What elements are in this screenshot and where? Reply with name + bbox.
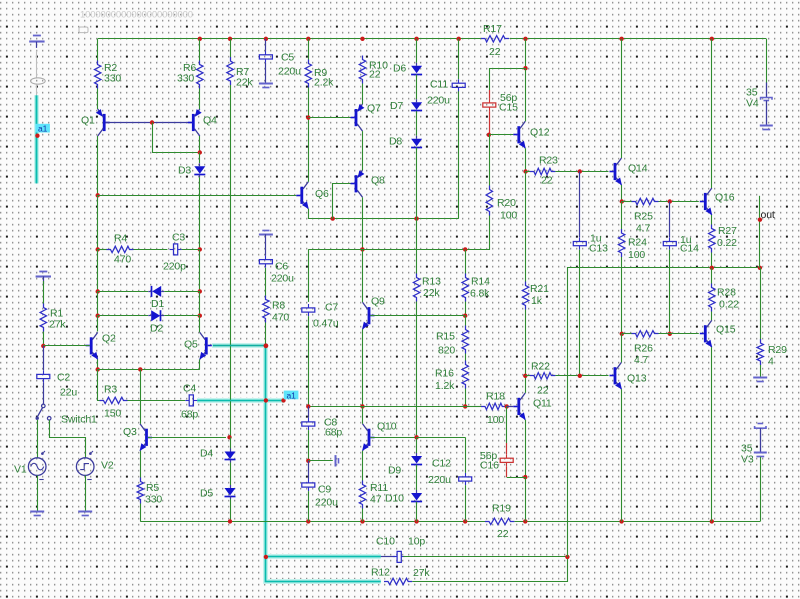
svg-text:4: 4 — [768, 356, 774, 368]
svg-text:Q5: Q5 — [184, 339, 198, 351]
wire R20 top lead — [489, 135, 491, 186]
capacitor C3 — [170, 244, 182, 255]
capacitor C6 — [259, 256, 272, 268]
capacitor C4 — [185, 395, 197, 406]
label D3 — [178, 165, 191, 177]
source V1 — [28, 451, 46, 480]
junction R22 right — [578, 374, 582, 378]
svg-text:220u: 220u — [278, 66, 301, 78]
value R25 — [636, 223, 650, 235]
resistor R3 — [100, 397, 128, 403]
diode D2 — [148, 310, 164, 321]
value R23 — [541, 175, 553, 187]
wire D10 to rail — [416, 502, 418, 521]
battery V3 — [754, 424, 767, 457]
power supply stub above R1 — [36, 272, 51, 285]
value C5 — [278, 66, 301, 78]
label R19 — [492, 503, 511, 515]
value C3 — [163, 261, 186, 273]
capacitor C13 — [573, 238, 586, 250]
value R10 — [369, 68, 381, 80]
wire red above C15 — [489, 90, 491, 99]
label C6 — [275, 261, 288, 273]
wire R9 to Q7 base node — [308, 88, 310, 118]
junction C15 top — [523, 66, 527, 70]
svg-text:Q13: Q13 — [627, 373, 647, 385]
svg-text:1.2k: 1.2k — [435, 380, 455, 392]
junction R25 left — [620, 199, 624, 203]
wire D1 right lead — [164, 291, 200, 293]
wire Q11 collector up — [525, 376, 527, 393]
capacitor C9 — [302, 479, 315, 491]
resistor R4 — [107, 246, 134, 252]
svg-text:Q6: Q6 — [315, 188, 329, 200]
value C10 — [408, 536, 425, 548]
svg-text:R23: R23 — [539, 155, 558, 167]
label C10 — [376, 535, 395, 547]
transistor Q4 — [188, 109, 202, 136]
svg-text:820: 820 — [438, 345, 455, 357]
svg-text:22k: 22k — [236, 77, 253, 89]
wire Q14 emitter down — [621, 185, 623, 202]
value C6 — [271, 273, 294, 285]
wire red to C16 — [506, 443, 508, 454]
label C4 — [183, 383, 196, 395]
wire bottom rail right — [515, 521, 761, 523]
label R8 — [272, 300, 285, 312]
label R23 — [539, 155, 558, 167]
wire out stub — [759, 196, 761, 268]
svg-text:R25: R25 — [634, 211, 653, 223]
junction C3 right — [198, 247, 202, 251]
value R5 — [145, 493, 162, 505]
wire Q12 emitter down — [525, 148, 527, 171]
value C7 — [313, 318, 339, 330]
value R18 — [487, 414, 504, 426]
svg-text:100: 100 — [487, 414, 504, 426]
label out — [761, 209, 775, 221]
label D8 — [389, 136, 402, 148]
wire row 249 — [308, 216, 489, 250]
label R10 — [369, 60, 388, 72]
label R7 — [236, 66, 249, 78]
junction R23 left — [523, 169, 527, 173]
junction a1 end — [281, 398, 285, 402]
junction bottom rail x621 — [619, 519, 623, 523]
source V2 — [76, 451, 94, 480]
value C12 — [428, 474, 451, 486]
value R27 — [717, 237, 737, 249]
resistor R28 — [709, 284, 715, 312]
wire C15 top corner — [525, 39, 527, 68]
wire Q1-Q4 base row — [106, 122, 192, 124]
svg-text:1k: 1k — [531, 295, 543, 307]
svg-text:R22: R22 — [531, 361, 550, 373]
value R6 — [177, 72, 194, 84]
svg-text:Q15: Q15 — [716, 324, 736, 336]
junction top rail x199 — [198, 37, 202, 41]
junction base row — [150, 120, 154, 124]
wire Q3 collector up — [140, 369, 142, 423]
wire C13 riser — [579, 172, 581, 238]
ground C6 — [259, 231, 273, 235]
svg-text:4.7: 4.7 — [636, 223, 650, 235]
ground C9 (rotated) — [336, 455, 339, 466]
wire C13 down — [579, 250, 581, 376]
junction D1 right — [198, 289, 202, 293]
svg-text:Q14: Q14 — [628, 163, 648, 175]
wire R21 bottom — [525, 310, 527, 376]
junction bottom rail x308 — [306, 519, 310, 523]
value C9 — [315, 497, 338, 509]
svg-text:10p: 10p — [408, 536, 425, 548]
value R20 — [500, 209, 517, 221]
label Q2 — [102, 332, 116, 344]
value R2 — [104, 72, 121, 84]
wire R7 top — [230, 39, 232, 57]
wire row 406 — [308, 406, 465, 408]
label C12 — [432, 458, 451, 470]
wire Q10 emitter to R11 — [362, 451, 364, 481]
transistor Q10 — [362, 424, 374, 451]
svg-text:D10: D10 — [385, 493, 404, 505]
value R26 — [634, 354, 648, 366]
wire R14 top lead — [465, 249, 467, 273]
svg-text:22: 22 — [489, 46, 501, 58]
svg-text:22: 22 — [497, 528, 509, 540]
wire to gnd right — [308, 460, 333, 462]
wire C12 to rail — [465, 485, 467, 521]
svg-text:27k: 27k — [413, 567, 430, 579]
junction R26 left — [620, 332, 624, 336]
value R12 — [413, 567, 430, 579]
svg-text:100: 100 — [628, 249, 645, 261]
wire D9-D10 — [416, 465, 418, 490]
wire Q2 base — [43, 345, 89, 347]
label D10 — [385, 493, 404, 505]
resistor R27 — [709, 225, 715, 253]
wire R27 to out row — [711, 253, 713, 268]
svg-text:V3: V3 — [741, 454, 754, 466]
svg-text:470: 470 — [114, 254, 131, 266]
wire R22 left lead — [525, 375, 530, 377]
wire x200 D2 to Q5 collector — [199, 316, 201, 333]
capacitor C14 — [663, 238, 676, 250]
wire C5 top — [265, 39, 267, 51]
resistor R18 — [481, 403, 506, 409]
value R16 — [435, 380, 455, 392]
junction Q8 out node — [360, 247, 364, 251]
wire R5 to rail corner — [140, 504, 142, 522]
svg-text:out: out — [761, 209, 775, 221]
capacitor C7 — [302, 304, 315, 316]
svg-text:R28: R28 — [717, 287, 736, 299]
wire R26 left lead — [622, 333, 632, 335]
wire Q5 base (cyan) — [213, 345, 266, 347]
svg-text:Switch1: Switch1 — [61, 414, 97, 426]
svg-text:C4: C4 — [183, 383, 196, 395]
junction top rail x265 — [264, 37, 268, 41]
label R5 — [146, 482, 159, 494]
label V4 — [746, 97, 759, 109]
wire Q7-Q8 — [362, 131, 364, 170]
wire C8 to C9 node — [308, 430, 310, 461]
junction Q7 base node — [306, 115, 310, 119]
wire D6-D7 — [416, 75, 418, 100]
value R1 — [49, 319, 66, 331]
label R27 — [718, 225, 737, 237]
junction C9 top — [306, 459, 310, 463]
resistor R2 — [95, 61, 101, 89]
wire to R1 — [43, 281, 45, 304]
wire Q14 collector up — [621, 39, 623, 158]
resistor R19 — [485, 518, 514, 524]
resistor R8 — [263, 296, 269, 323]
net label a1 left — [35, 124, 50, 134]
wire base row to Q4 collector L — [153, 123, 200, 153]
transistor Q14 — [610, 158, 622, 185]
svg-text:220u: 220u — [271, 273, 294, 285]
power supply stub top-left — [29, 36, 44, 48]
svg-text:0.22: 0.22 — [717, 237, 737, 249]
wire C2 to switch — [43, 383, 45, 404]
svg-text:R4: R4 — [114, 233, 127, 245]
resistor R23 — [530, 168, 556, 174]
svg-text:D2: D2 — [150, 323, 163, 335]
wire node to D9 — [416, 437, 418, 453]
label Q8 — [371, 174, 385, 186]
svg-text:D7: D7 — [390, 100, 403, 112]
label C16 — [480, 460, 499, 472]
svg-text:330: 330 — [177, 72, 194, 84]
value R24 — [628, 249, 645, 261]
label R28 — [717, 287, 736, 299]
wire Q3 emitter to R5 — [140, 451, 142, 478]
svg-text:22u: 22u — [60, 387, 77, 399]
svg-text:0.22: 0.22 — [719, 299, 739, 311]
wire Q9 base — [370, 315, 465, 317]
wire top rail right — [510, 38, 767, 40]
value R13 — [423, 287, 440, 299]
wire R18node down — [506, 406, 508, 443]
transistor Q7 — [351, 104, 365, 131]
wire Q10 collector up — [362, 406, 364, 423]
junction D1 left — [96, 289, 100, 293]
wire C11 riser — [458, 91, 460, 219]
svg-text:a1: a1 — [38, 124, 48, 134]
capacitor C10 — [393, 551, 405, 562]
svg-text:D4: D4 — [200, 448, 213, 460]
wire red below C16 — [506, 466, 508, 477]
label R18 — [486, 391, 505, 403]
junction top rail x458 — [457, 37, 461, 41]
value R4 — [114, 254, 131, 266]
svg-text:V1: V1 — [14, 464, 27, 476]
svg-text:22: 22 — [541, 175, 553, 187]
svg-text:R24: R24 — [628, 237, 647, 249]
label Q11 — [533, 398, 552, 410]
resistor R29 — [757, 339, 763, 365]
wire top rail left — [98, 38, 481, 40]
label V4 value — [746, 86, 758, 98]
value R28 — [719, 299, 739, 311]
wire Q3 base — [148, 437, 226, 439]
wire emitters row y369 — [98, 369, 200, 371]
value C4 — [181, 409, 198, 421]
label R26 — [634, 343, 653, 355]
junction R25 right — [668, 199, 672, 203]
wire V3 to rail — [760, 457, 762, 522]
wire x98 D2 to Q2 collector — [97, 316, 99, 332]
wire rail to D6 — [416, 39, 418, 63]
label Q5 — [184, 339, 198, 351]
wire Q6 base row y195 — [98, 195, 297, 197]
svg-text:C10: C10 — [376, 535, 395, 547]
svg-text:330: 330 — [104, 72, 121, 84]
svg-text:R17: R17 — [483, 23, 502, 35]
label R1 — [50, 308, 63, 320]
resistor R6 — [197, 61, 203, 89]
wire Q9 collector up — [362, 249, 364, 302]
ground C5 — [259, 84, 273, 88]
wire V2 to ground — [85, 475, 87, 511]
wire gnd to C6 — [265, 234, 267, 255]
value R3 — [104, 408, 121, 420]
wire Q16 collector up — [711, 39, 713, 188]
wire R22 to Q13 — [555, 375, 608, 377]
label C16 value — [480, 450, 497, 462]
label V1 — [14, 464, 27, 476]
svg-text:C13: C13 — [589, 243, 608, 255]
transistor Q15 — [700, 320, 712, 347]
resistor R10 — [359, 56, 365, 84]
svg-text:V4: V4 — [746, 97, 759, 109]
svg-text:R13: R13 — [422, 275, 441, 287]
resistor R20 — [486, 186, 492, 216]
svg-text:470: 470 — [272, 312, 289, 324]
junction top rail x308 — [306, 37, 310, 41]
junction out row R29 — [758, 266, 762, 270]
svg-text:Q11: Q11 — [533, 398, 552, 410]
label D7 — [390, 100, 403, 112]
wire R4 left lead — [98, 249, 107, 251]
wire D2 left lead — [98, 315, 148, 317]
wire C11 top — [458, 39, 460, 79]
label C14 — [680, 243, 699, 255]
value R11 — [370, 493, 382, 505]
wire D7-D8 — [416, 111, 418, 136]
diode D4 — [225, 449, 236, 463]
diode D7 — [411, 99, 422, 113]
label R12 — [371, 567, 390, 579]
svg-text:150: 150 — [104, 408, 121, 420]
label C5 — [281, 51, 294, 63]
label C3 — [172, 232, 185, 244]
wire R9 top — [308, 39, 310, 60]
svg-text:47: 47 — [370, 493, 382, 505]
label V3 — [741, 454, 754, 466]
junction row406 x362 — [360, 404, 364, 408]
value C11 — [427, 94, 450, 106]
junction top rail x416 — [414, 37, 418, 41]
svg-text:C14: C14 — [680, 243, 699, 255]
wire Q6 emitter corner — [309, 209, 459, 219]
svg-text:R5: R5 — [146, 482, 159, 494]
svg-text:R26: R26 — [634, 343, 653, 355]
label R25 — [634, 211, 653, 223]
wire R24 bottom — [621, 257, 623, 334]
junction R13 top — [414, 216, 418, 220]
value R7 — [236, 77, 253, 89]
label D1 — [151, 298, 164, 310]
junction R14 top — [463, 247, 467, 251]
label V2 — [101, 460, 114, 472]
wire bottom rail — [140, 521, 485, 523]
diode D8 — [411, 136, 422, 150]
label R6 — [183, 62, 196, 74]
diode D6 — [411, 63, 422, 77]
svg-text:220p: 220p — [163, 261, 186, 273]
resistor R13 — [413, 274, 419, 302]
svg-text:Q4: Q4 — [203, 115, 217, 127]
wire R11 to rail — [362, 509, 364, 522]
wire R15-R16 — [465, 354, 467, 361]
value R9 — [314, 77, 334, 89]
label D5 — [200, 488, 213, 500]
resistor R17 — [481, 36, 509, 42]
junction C16 node — [523, 475, 527, 479]
wire x98 249-291 — [97, 249, 99, 291]
wire C10 row (cyan) — [266, 556, 381, 558]
wire R16 bottom — [465, 389, 467, 407]
junction C10 tap — [264, 555, 268, 559]
svg-text:330: 330 — [145, 493, 162, 505]
junction Q8 base tap — [331, 216, 335, 220]
wire D2 right lead — [164, 315, 200, 317]
wire C8 drop — [308, 406, 310, 418]
wire R21 top lead — [525, 172, 527, 282]
wire R12 right — [412, 557, 567, 582]
transistor Q9 — [362, 302, 374, 329]
wire C4 to a1 (cyan) — [197, 400, 283, 402]
value R14 — [470, 288, 490, 300]
wire Q11e to rail — [525, 477, 527, 521]
wire net a1 left (cyan) — [36, 95, 38, 183]
wire R29 top lead — [760, 268, 762, 339]
svg-text:Q1: Q1 — [81, 115, 95, 127]
wire node to D4 — [230, 437, 232, 448]
resistor R25 — [632, 198, 659, 204]
net a1 highlight halo — [37, 95, 381, 583]
svg-text:R29: R29 — [768, 344, 787, 356]
transistor Q3 — [140, 424, 152, 451]
wire C5 to ground — [265, 63, 267, 83]
resistor R15 — [462, 326, 468, 354]
gray header text — [80, 10, 193, 21]
svg-text:C16: C16 — [480, 460, 499, 472]
svg-text:D6: D6 — [393, 63, 406, 75]
capacitor C12 — [459, 473, 472, 485]
svg-text:C6: C6 — [275, 261, 288, 273]
svg-text:R14: R14 — [471, 275, 490, 287]
value C8 — [325, 427, 342, 439]
svg-text:22: 22 — [369, 68, 381, 80]
wire rail to V4 — [766, 39, 768, 83]
wire Q15 emitter down — [711, 347, 713, 521]
svg-text:2.2k: 2.2k — [314, 77, 334, 89]
label V3 value — [741, 443, 753, 455]
wire C14 riser — [669, 202, 671, 238]
